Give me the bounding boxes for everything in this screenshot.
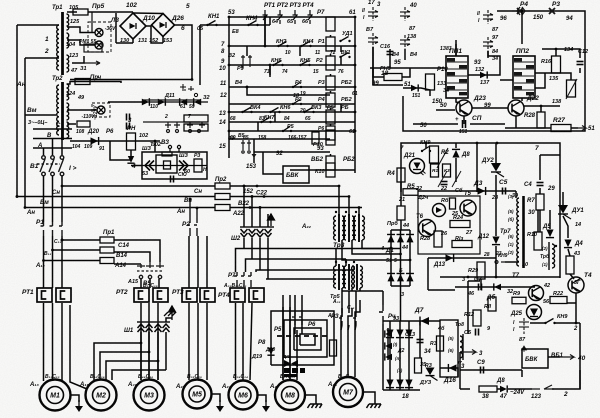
wire nested r3 [294,328,321,350]
fuse Pr6b [397,206,405,220]
junction sh2c [259,206,262,209]
coupling inner sq [164,161,171,169]
junction l6 [354,64,357,67]
arrow up bvk [522,346,527,352]
wire nested r4 [300,334,315,345]
junction t264 [42,259,45,262]
transformer Tr5 winding 2a [344,266,346,288]
bus An right [230,207,362,209]
junction t252 [51,249,54,252]
contact KN9 bottom [495,261,505,264]
relay coil Р1 [326,37,335,51]
dashed lamp enclosure [88,22,111,52]
diode D20 [91,137,99,145]
diode D13 [446,254,454,262]
wire v3 drop [154,141,156,152]
contact dashes M8 [277,335,327,337]
wire M7 drop b [347,330,349,377]
wire V5 out3 [158,279,160,288]
wire pp1 right [468,62,500,75]
wire pp1 to d23 [456,98,460,103]
junction l8 [354,111,357,114]
wire pp2 top link [521,11,523,44]
junction l9 [354,130,357,133]
capacitor C tr2b [127,123,130,130]
relay coil Р3 [326,76,335,90]
bus An wire [25,207,215,209]
diode D12b [194,98,202,106]
wire bridge out bus [70,79,192,81]
transformer Tr3 core 2 [348,214,350,242]
wire rn5 rung [370,67,446,69]
connector Sh2 pin 3 [257,229,264,237]
transformer Tr2 secondary 3 [67,122,69,138]
wire c9 rung [460,369,522,371]
wire M5 drop c [206,303,208,380]
gnd marks small [180,84,194,91]
capacitor SP [463,120,466,128]
transformer Tr1 core a [61,12,64,75]
wire M8 drop c [296,330,298,380]
wire bridges top [133,12,163,15]
wire Р4 coil [330,91,332,93]
junction lv1 [264,16,267,19]
wire d1 down rail [400,286,402,321]
wire m7 diode rail [387,328,389,360]
wire d13 rung [428,257,496,259]
ground Sh2 uparrow [268,214,275,226]
wire T4 emitter down [575,293,577,323]
coupling housing [156,155,177,173]
motor M5 [183,380,212,409]
aux box To8 [440,320,458,377]
transistor T5b [460,200,476,216]
wire P2 down a [188,236,190,288]
junction d1 [256,185,259,188]
diode Dm7a [385,330,392,337]
transistor D22 [508,100,524,116]
ladder rung y87 [229,86,355,88]
box sec tr2 [143,100,200,122]
contact KN5 [299,61,310,67]
junction tr1 [521,10,524,13]
wire 3 stub [468,280,480,282]
resistor R9 [512,297,526,304]
wire pp2 r [535,73,545,88]
package switch S5 [483,10,493,24]
capacitor C7 [479,284,482,291]
wire d22 bottom [515,116,517,128]
wire ladder v9 [257,122,259,131]
package sw b7 [519,318,529,334]
wire drop 153 [253,139,255,163]
resistor wide b [184,124,208,131]
wire d13 drop [427,258,429,290]
wire d23 to d22 rail [472,107,508,109]
wire rn rung [70,140,160,142]
wire Sh1 drop3 [157,332,159,380]
wire c9 left rail [459,352,461,389]
contact KN7 [260,118,271,124]
wire V1 out C [61,176,63,222]
fuse V14 [100,258,114,264]
motor M3 [134,380,165,411]
wire ladder v3 [269,65,271,77]
wire s2 down [372,47,374,85]
wire coupling feed [131,165,142,167]
thyristor DU3 [426,368,438,381]
fuse V22 [215,205,230,211]
contactor P2 contacts [187,199,197,236]
arrow 40 [560,355,574,360]
diode D2b [396,330,404,338]
wire M5 drop b [197,303,199,380]
contact KN6 [272,61,283,67]
contact KN6b [269,108,280,114]
junction l3 [228,111,231,114]
wire phase A drop [43,148,45,155]
package switch S3 [400,7,410,21]
wire M6 gnd [258,395,267,402]
contact UD1 [339,37,350,43]
ground M7 [367,397,382,408]
relay RN [127,133,136,150]
contact cluster bottom [241,140,251,153]
resistor R10 [534,232,542,250]
wire phase C [33,128,72,130]
wire coupling mid [142,165,207,167]
wire bridge D26 stub [162,37,164,44]
wire rail pr6 [400,220,402,230]
fuse S22 [215,194,230,200]
wire diode row [142,101,208,103]
thermal contact RT2 [278,10,283,24]
pushbutton KN4 [247,21,258,27]
wire r27 out [571,127,578,129]
thyristor DU1 [558,205,571,219]
resistor R7 [536,194,544,210]
junction bt1 [425,142,428,145]
capacitor C5b [476,329,479,336]
wire ladder v8 [274,112,276,122]
wire Sh2 feed1 [243,186,245,227]
wire fan4 [112,370,166,380]
wire V1 out B [52,176,54,222]
wire A16 feeder [70,305,87,389]
diode D8v [452,149,460,157]
potentiometer R2 arrow [437,148,448,168]
wire ladder v5 [340,46,342,52]
ladder right bus [354,17,356,173]
transformer Tr8 dot [555,245,557,247]
wire bridge mid link [146,26,163,43]
potentiometer R2 [430,146,439,163]
junction l4 [228,130,231,133]
contact KN9 [421,147,431,153]
transformer Tr5 winding 3a [352,266,354,288]
wire m8 vert2 [289,295,291,380]
relay coil РБ2 [326,156,335,170]
wire r27 rung [505,127,551,129]
wire M1 drop c [61,303,63,381]
wire c7 drop [480,289,482,291]
transformer Tr5 dot 1 [335,261,337,263]
junction r16 [555,48,558,51]
wire d5 rail [549,210,551,229]
wire tr2 out1 [67,82,121,85]
diode D16 [448,364,456,372]
resistor R T4 [566,256,574,274]
junction t240 [61,239,64,242]
junction bt3 [496,142,499,145]
transformer Tr5 winding 2b [352,266,354,288]
wire РБ2 coil [330,154,332,156]
diode D8 bottom [500,385,507,392]
wire Sh2 drop2 [251,238,253,259]
wire bridge bottom bus [383,389,420,391]
junction l5 [354,45,357,48]
wire ladder v4 [299,46,301,56]
wire sh2 fanout3 [256,270,354,272]
junction l1 [228,45,231,48]
bridge rectifier D10 [120,13,146,39]
wire P2 down b [197,236,199,288]
package switch S6 [483,37,493,51]
transformer Tr5 winding 1b [342,266,344,288]
wire c7 left ext [428,289,455,291]
wire rung r2 vert [269,65,271,75]
block PP1 pins [447,62,467,90]
contact cluster 141 [241,55,252,68]
wire d12 rail [495,246,497,258]
connector Sh1 bar [137,321,170,323]
wire kn9 right [530,322,545,324]
junction l11 [354,16,357,19]
motor M7 [333,377,363,407]
wire du rail to bottom [495,258,497,277]
wire left feeder B [24,58,26,208]
wire M8 drop b [289,307,291,380]
wire lamp drop [91,12,93,32]
wire c4 top link [540,154,560,156]
relay RN5 [384,74,402,81]
junction fan1 [140,342,143,345]
wire sp right [470,123,505,125]
wire rn5 loop [373,68,384,77]
junction bt2 [476,142,479,145]
wire sh2 fanout4 [266,278,336,280]
thermal relay RT4 b [249,288,264,302]
wire M6 drop b [242,303,244,380]
wire pp1 top1 [455,40,457,56]
wire d1 rail b [400,230,402,286]
junction fan3 [157,360,160,363]
analog box outline [401,143,560,278]
contact P5 r [282,127,292,133]
resistor R12 [473,310,481,326]
junction bus2 [24,206,27,209]
wire du1 to d4 [563,216,568,238]
wire d22 rail [524,105,560,107]
junction l7 [354,86,357,89]
capacitor C12 [577,62,584,65]
ladder rung y46 [229,45,355,47]
package switch S4 [400,35,410,49]
wire nested r1 [271,311,334,365]
junction P2a [189,198,192,201]
wire fan2 [100,352,149,380]
contact KN4b [300,42,311,48]
pushbutton KN1 [206,21,217,27]
junction l10 [228,16,231,19]
capacitor C9 [481,367,484,374]
capacitor C5 [503,188,506,195]
wire r16 top [542,49,556,56]
wire c12 pot [579,68,581,73]
ladder rung y112 [229,111,355,113]
wire kn9 rail [425,143,427,148]
wire fuse to bridge [88,11,133,13]
transformer Tr8 core [548,242,550,270]
wire bottom rung2 [497,388,500,390]
relay coil Р6 [326,126,335,140]
arrow right small [84,61,100,65]
wire tr3 tap1 [362,240,391,249]
wire Tr5 out3 [359,288,361,291]
transformer Tr3 winding 1b [342,216,344,240]
wire Sh2 feed3 [259,208,261,228]
wire rung link2 [264,17,266,46]
connector Sh1 pin 4 [163,324,170,332]
resistor R6b [450,198,456,209]
capacitor C4 [537,183,544,186]
transformer Tr5 core 3 [356,264,358,290]
relay coil K10 [326,163,335,177]
wire tr2 lamp2 [67,123,76,125]
relay R10 coil [426,74,435,90]
wire pkg s4 to c16 [389,49,391,68]
wire M8 gnd [305,395,316,397]
wire pp1 bottom loop [403,88,430,96]
wire Sh2 feed2 [251,197,253,228]
wire M1 feed B [52,236,54,288]
diode Dm7b [385,342,392,349]
wire fuse3 to V5 [114,263,141,265]
contact P3 marks [549,8,555,14]
thermal relay RT1 a [37,288,52,302]
motor M2 [86,380,117,411]
wire Tr5 out2 [351,288,353,291]
wire nested r2 [284,320,327,357]
bus Vn right [230,196,350,198]
junction d2 [263,195,266,198]
wire Tr3 feed2 [348,197,350,217]
transformer Tr5 core 2 [348,264,350,290]
diode cluster M8 [284,360,298,373]
coupling chevrons left [145,161,154,171]
junction d3 [249,206,252,209]
contact P3 hooks b [339,313,356,325]
wire Tr5 feed3 [353,266,355,270]
wire d23 bottom [463,116,465,124]
wire cluster left rail [467,287,469,334]
junction d1t2 [399,253,402,256]
ladder rung y139 [229,138,330,140]
transformer Tr7 core a [522,196,525,268]
wire Tr5 feed2 [345,259,347,266]
contact VK1 [339,53,350,59]
wire M1 gnd [71,395,80,402]
wire sec3 right [72,56,84,63]
wire bridge col 2 [399,321,401,390]
wire P2 down c [206,236,208,288]
wire tr2 lamp [67,109,96,111]
junction b5 [16,195,19,198]
wire phase A [33,147,72,149]
wire Sh2 feed4 [267,214,269,227]
wire M8 drop a [282,307,284,380]
wire m7 f1 [341,325,342,330]
diode D4 [564,240,572,248]
package switch S2 [368,33,378,47]
contactor P7 contacts [234,272,251,287]
thyristor D25 circ [527,305,542,320]
wire d4 r [568,249,570,256]
resistor R5 [403,189,418,196]
wire Р1 coil [330,35,332,37]
wire bridge D10 stub [132,39,134,43]
resistor wide a [184,115,208,122]
diode D6 [494,283,501,290]
motor M6 [229,381,258,410]
wire Р2 coil [330,54,332,56]
junction d1t3 [409,259,412,262]
ladder rung y152 [254,151,330,153]
diode D1a2 [387,234,395,242]
transformer Tr3 winding 2a [344,216,346,240]
transformer Tr1 secondary 2 [67,33,69,48]
wire tap y264 [44,260,101,262]
transformer Tr5 core 1 [338,264,340,290]
junction tr3a [338,185,341,188]
resistor R16 [552,56,561,73]
wire Tr3 feed3 [358,208,360,217]
connector Sh1 pin 2 [146,324,153,332]
junction rn [154,140,157,143]
wire left rail P4b [382,324,384,390]
contact P3 hooks [292,312,302,325]
junction b3 [259,206,262,209]
connector Sh1 pin 1 [138,324,145,332]
wire left rail P4 [382,291,384,305]
junction bus [61,185,64,188]
switch V5 poles [137,262,164,279]
junction lv3 [246,86,249,89]
transistor T4 [568,277,584,293]
capacitor C10 [171,176,174,183]
wire rn bypass [110,141,131,160]
transformer Tr1 secondary 1 [67,14,69,30]
wire bridge col 1 [389,321,391,390]
wire Sh2 drop1 [243,238,245,249]
wire m8 vert1 [282,295,284,380]
capacitor C tr2 [127,114,130,121]
wire Tr5 out [341,288,343,313]
wire M1 drop a [43,303,45,381]
junction rung1 [246,86,249,89]
wire M6 drop c [250,303,252,380]
wire Sh1 drop4 [165,332,167,370]
